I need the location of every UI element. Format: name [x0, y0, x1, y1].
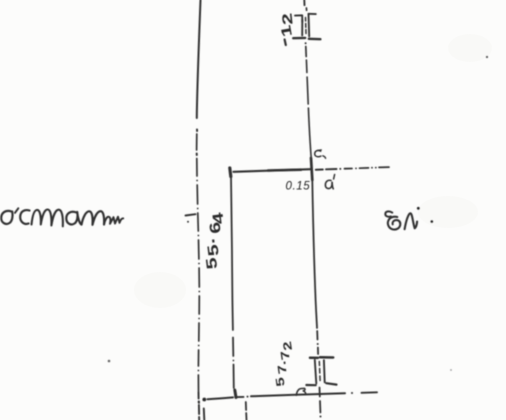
- label: 27.75 (rotated, along axis): [274, 340, 295, 387]
- label: cursive word (gi.) right: [385, 211, 392, 216]
- speck: faint tick right: [450, 369, 452, 371]
- node tick: at inner line foot: [238, 396, 244, 398]
- symbol: top culvert/gate mark on axis: [293, 14, 320, 39]
- wire: center axis line top tick: [303, 0, 305, 5]
- label: point a': [325, 180, 332, 188]
- label: 21- (rotated, top measure): [278, 12, 296, 38]
- wire: middle fence line (horizontal solid): [234, 169, 312, 172]
- wire: center axis middle solid section: [312, 180, 317, 328]
- wire: center axis below top symbol (dash-dot then solid): [305, 42, 307, 44]
- svg-text:5: 5: [274, 376, 288, 387]
- wire: center axis dash-dot above bottom symbol: [316, 331, 318, 340]
- wire: left boundary line (long, top solid): [197, 0, 201, 118]
- wire: center axis crossing bottom line: [319, 388, 321, 397]
- svg-text:0.15: 0.15: [286, 181, 311, 193]
- label: 55.64 (rotated, along left lines): [201, 211, 227, 271]
- label: small s flourish near bottom line: [296, 388, 304, 395]
- wire: inner parcel line (second vertical): [230, 168, 231, 177]
- svg-text:5: 5: [203, 257, 221, 271]
- node tick: bottom end tick of inner parcel line: [235, 390, 236, 398]
- wire: short dashed vertical below bottom line: [245, 402, 247, 410]
- wire: short parallel stroke below bottom line: [203, 409, 206, 420]
- node tick: measure mark on left line: [186, 214, 196, 215]
- speck: dot upper right: [486, 56, 488, 58]
- svg-text:5: 5: [204, 243, 222, 257]
- label: point c: [315, 151, 321, 157]
- faint scan smudges: [134, 34, 492, 308]
- svg-text:7: 7: [276, 364, 290, 375]
- symbol: bottom culvert/gate mark on axis: [306, 357, 336, 385]
- label: cursive word (osman) left: [1, 211, 12, 224]
- node: junction at point c: [311, 158, 312, 180]
- wire: left boundary line bottom dash-dot: [198, 392, 200, 399]
- svg-text:6: 6: [206, 221, 224, 235]
- wire: left boundary line dash-dot section: [196, 130, 200, 392]
- speck: dot lower left: [108, 360, 111, 363]
- wire: bottom boundary dash-dot line: [202, 398, 206, 402]
- wire: middle boundary dash-dot to right: [316, 169, 323, 171]
